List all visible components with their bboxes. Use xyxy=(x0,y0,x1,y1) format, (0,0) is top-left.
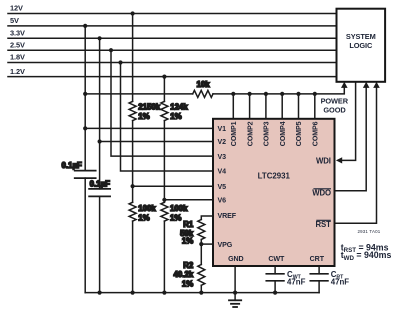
system logic box xyxy=(337,9,386,82)
resistor 100k (B) xyxy=(161,202,168,221)
svg-text:COMP2: COMP2 xyxy=(246,121,254,146)
svg-text:WDO: WDO xyxy=(312,188,331,197)
wire 2.5V drop to V3 xyxy=(111,50,213,156)
svg-text:2931 TA01: 2931 TA01 xyxy=(358,229,381,234)
node V2 tap xyxy=(98,139,102,143)
node GND pin xyxy=(233,291,237,295)
node 5V drop xyxy=(83,24,87,28)
svg-text:R1: R1 xyxy=(183,220,194,229)
wire 5V drop to V1 and bypass cap xyxy=(84,26,86,171)
node V1 tap xyxy=(83,126,87,130)
svg-text:1.2V: 1.2V xyxy=(10,67,25,76)
svg-text:2150k: 2150k xyxy=(138,102,161,111)
node V5 divider xyxy=(131,184,135,188)
svg-text:1%: 1% xyxy=(170,112,181,121)
arrow power good up xyxy=(341,82,348,88)
svg-text:12V: 12V xyxy=(10,4,23,13)
svg-text:COMP3: COMP3 xyxy=(263,121,271,146)
wire R1 to VPG node xyxy=(200,240,202,265)
IC U1 LTC2931 body xyxy=(213,119,335,266)
svg-text:COMP1: COMP1 xyxy=(230,121,238,146)
node C2 ground xyxy=(98,291,102,295)
node R1-R2 VPG xyxy=(199,242,203,246)
svg-text:GND: GND xyxy=(228,255,243,263)
svg-text:47nF: 47nF xyxy=(331,277,350,286)
wire COMP6 stub xyxy=(314,94,316,119)
wire power-good to system logic xyxy=(213,87,344,94)
wire WDI from system logic xyxy=(341,82,355,161)
node pullup tap xyxy=(83,92,87,96)
node V6 divider xyxy=(162,198,166,202)
svg-text:GOOD: GOOD xyxy=(323,106,346,115)
node 12V drop xyxy=(131,11,135,15)
capacitor CWT 47nF xyxy=(266,273,284,275)
wire COMP1 stub xyxy=(232,94,234,119)
wire 12V drop to divider xyxy=(132,14,134,102)
svg-text:LTC2931: LTC2931 xyxy=(258,171,291,180)
wire VREF to R1 xyxy=(201,216,213,220)
wire CWT cap to rail xyxy=(274,281,276,293)
capacitor C2 0.1uF xyxy=(89,188,110,190)
wire 1.2V drop to 124k xyxy=(163,77,165,102)
svg-text:CWT: CWT xyxy=(268,255,285,263)
wire 3.3V rail xyxy=(8,37,337,39)
svg-text:VPG: VPG xyxy=(218,241,233,249)
wire WDO to system logic xyxy=(335,87,367,191)
node COMP4 xyxy=(280,92,284,96)
svg-text:1%: 1% xyxy=(170,213,181,222)
wire ground rail xyxy=(85,292,319,294)
wire GND pin to rail xyxy=(234,266,236,293)
svg-text:RST: RST xyxy=(316,220,332,229)
wire RST to system logic xyxy=(335,87,377,224)
wire CRT cap stub xyxy=(318,266,320,274)
svg-text:V3: V3 xyxy=(218,153,227,161)
resistor R1 59k xyxy=(198,220,205,240)
wire CRT cap to rail xyxy=(318,281,320,293)
svg-text:VREF: VREF xyxy=(218,212,237,220)
svg-text:COMP6: COMP6 xyxy=(312,121,320,146)
wire 124k to V6 node xyxy=(163,121,165,203)
svg-text:47nF: 47nF xyxy=(287,277,306,286)
node CWT ground xyxy=(273,291,277,295)
svg-text:1%: 1% xyxy=(138,213,149,222)
resistor 10k xyxy=(193,90,213,97)
svg-text:R2: R2 xyxy=(183,261,194,270)
wire V5 horizontal xyxy=(133,185,213,187)
wire 12V rail xyxy=(8,13,337,15)
svg-text:10k: 10k xyxy=(197,80,211,89)
svg-text:CRT: CRT xyxy=(310,255,325,263)
resistor 100k (A) xyxy=(129,202,136,221)
wire C2 to ground rail xyxy=(99,196,101,292)
svg-text:5V: 5V xyxy=(10,16,19,25)
node COMP6 xyxy=(313,92,317,96)
wire V6 horizontal xyxy=(164,199,213,201)
resistor R2 40.2k xyxy=(198,265,205,286)
svg-text:1%: 1% xyxy=(138,112,149,121)
node COMP1 xyxy=(231,92,235,96)
svg-text:COMP4: COMP4 xyxy=(279,121,287,146)
node 1.8V drop xyxy=(118,60,122,64)
wire 1.2V rail xyxy=(8,76,337,78)
resistor 2150k xyxy=(129,101,136,120)
wire 3.3V drop to V2 and bypass cap xyxy=(99,38,101,189)
svg-text:1%: 1% xyxy=(182,237,193,246)
wire COMP5 stub xyxy=(298,94,300,119)
capacitor CRT 47nF xyxy=(310,273,328,275)
svg-text:POWER: POWER xyxy=(321,96,349,105)
wire 1.8V drop to V4 xyxy=(121,63,214,172)
arrow RST up xyxy=(373,82,380,88)
node 2.5V drop xyxy=(109,48,113,52)
svg-text:V2: V2 xyxy=(218,138,227,146)
svg-text:100k: 100k xyxy=(138,204,156,213)
svg-text:V1: V1 xyxy=(218,125,227,133)
wire COMP4 stub xyxy=(281,94,283,119)
svg-text:40.2k: 40.2k xyxy=(174,270,194,279)
wire 100k B to ground rail xyxy=(163,221,165,293)
svg-text:WDI: WDI xyxy=(316,157,331,166)
wire 5V rail xyxy=(8,25,337,27)
svg-text:3.3V: 3.3V xyxy=(10,29,25,38)
wire CWT cap stub xyxy=(274,266,276,274)
svg-text:V4: V4 xyxy=(218,168,227,176)
wire VPG horizontal xyxy=(201,243,213,245)
capacitor C1 0.1uF xyxy=(75,170,96,172)
svg-text:V6: V6 xyxy=(218,197,227,205)
wire V2 horizontal xyxy=(100,141,213,143)
svg-text:COMP5: COMP5 xyxy=(295,121,303,146)
node COMP3 xyxy=(264,92,268,96)
node 100kB ground xyxy=(162,291,166,295)
node 100kA ground xyxy=(131,291,135,295)
svg-text:V5: V5 xyxy=(218,183,227,191)
svg-text:2.5V: 2.5V xyxy=(10,40,25,49)
svg-text:1%: 1% xyxy=(182,280,193,289)
ground xyxy=(234,293,236,301)
svg-text:100k: 100k xyxy=(170,204,188,213)
wire V1 horizontal xyxy=(85,127,213,129)
node 1.2V drop xyxy=(162,75,166,79)
wire COMP2 stub xyxy=(249,94,251,119)
node 3.3V drop xyxy=(98,36,102,40)
svg-text:124k: 124k xyxy=(170,102,188,111)
wire C1 to ground rail xyxy=(84,178,86,293)
node R2 ground xyxy=(199,291,203,295)
wire 2150k to V5 node xyxy=(132,121,134,203)
svg-text:SYSTEM: SYSTEM xyxy=(346,32,376,41)
arrow WDO up xyxy=(363,82,370,88)
node COMP2 xyxy=(248,92,252,96)
svg-text:1.8V: 1.8V xyxy=(10,53,25,62)
arrow into WDI pin xyxy=(336,157,342,163)
wire R2 to ground rail xyxy=(200,285,202,292)
svg-text:0.1µF: 0.1µF xyxy=(90,179,111,188)
node COMP5 xyxy=(296,92,300,96)
wire COMP3 stub xyxy=(265,94,267,119)
wire 2.5V rail xyxy=(8,49,337,51)
resistor 124k xyxy=(161,101,168,120)
svg-text:LOGIC: LOGIC xyxy=(349,41,373,50)
wire power-good pullup from 5V xyxy=(85,93,193,95)
wire 1.8V rail xyxy=(8,62,337,64)
svg-text:0.1µF: 0.1µF xyxy=(62,161,83,170)
wire 100k A to ground rail xyxy=(132,221,134,293)
